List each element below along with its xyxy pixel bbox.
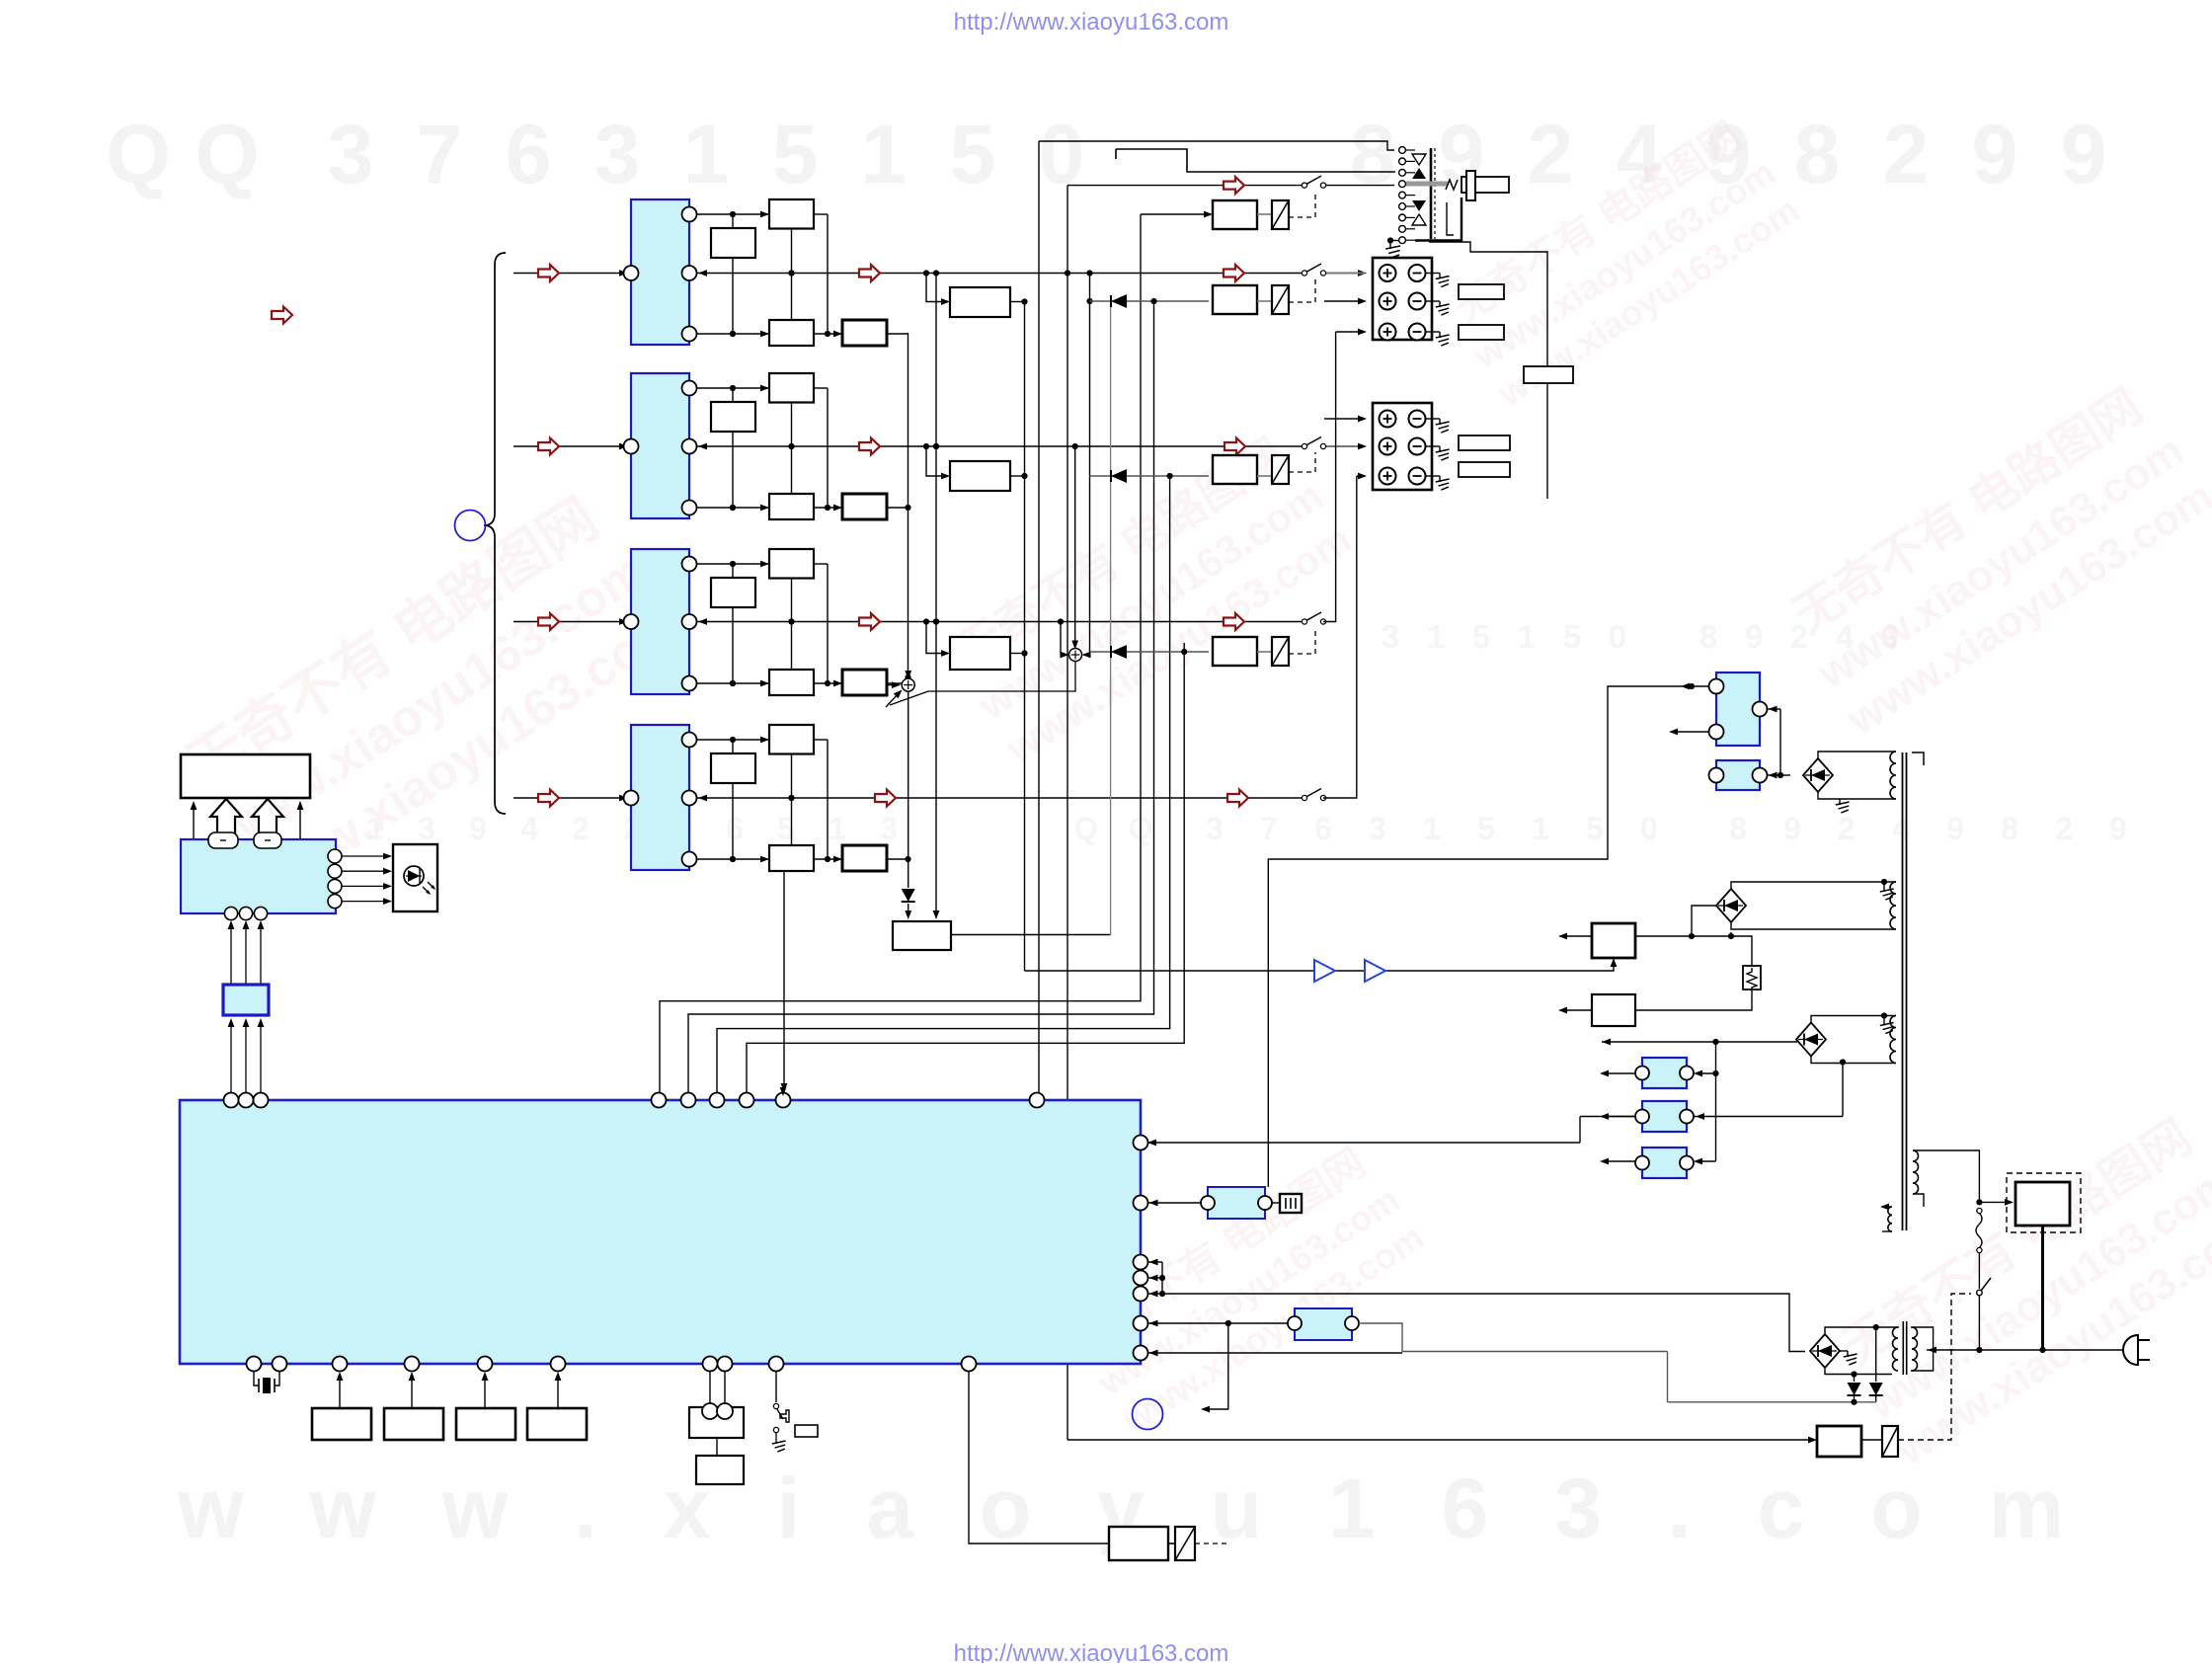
svg-text:2: 2 (1883, 108, 1930, 200)
svg-text:7: 7 (1260, 811, 1278, 846)
svg-text:2: 2 (572, 811, 590, 846)
svg-text:3: 3 (880, 811, 898, 846)
svg-text:1: 1 (1427, 618, 1445, 655)
svg-text:9: 9 (1783, 811, 1801, 846)
svg-text:6: 6 (506, 108, 552, 200)
svg-text:2: 2 (2055, 811, 2073, 846)
svg-text:8: 8 (1794, 108, 1841, 200)
svg-text:5: 5 (950, 108, 996, 200)
svg-text:Q: Q (195, 108, 259, 200)
svg-text:9: 9 (1745, 618, 1763, 655)
svg-text:Q: Q (106, 108, 170, 200)
svg-text:2: 2 (1528, 108, 1574, 200)
svg-text:5: 5 (1586, 811, 1604, 846)
svg-text:1: 1 (861, 108, 908, 200)
svg-text:1: 1 (683, 108, 730, 200)
svg-text:9: 9 (1972, 108, 2018, 200)
svg-text:5: 5 (1563, 618, 1581, 655)
svg-text:3: 3 (328, 108, 374, 200)
svg-text:8: 8 (1350, 108, 1396, 200)
svg-text:8: 8 (1699, 618, 1717, 655)
svg-text:1: 1 (1518, 618, 1536, 655)
svg-text:5: 5 (777, 811, 795, 846)
svg-text:3: 3 (1206, 811, 1224, 846)
svg-text:1: 1 (829, 811, 846, 846)
svg-text:9: 9 (1946, 811, 1964, 846)
svg-text:9: 9 (2109, 811, 2127, 846)
svg-text:5: 5 (1472, 618, 1490, 655)
svg-text:7: 7 (417, 108, 463, 200)
svg-text:1: 1 (1532, 811, 1549, 846)
svg-text:http://www.xiaoyu163.com: http://www.xiaoyu163.com (954, 9, 1229, 36)
svg-text:6: 6 (726, 811, 744, 846)
svg-text:0: 0 (1609, 618, 1626, 655)
svg-text:5: 5 (772, 108, 819, 200)
svg-text:2: 2 (1838, 811, 1856, 846)
svg-text:5: 5 (1477, 811, 1495, 846)
svg-text:6: 6 (1314, 811, 1332, 846)
svg-text:8: 8 (2001, 811, 2018, 846)
svg-text:8: 8 (1729, 811, 1747, 846)
svg-text:1: 1 (1423, 811, 1441, 846)
svg-text:Q: Q (1074, 811, 1099, 846)
svg-text:9: 9 (469, 811, 487, 846)
svg-text:0: 0 (1039, 108, 1085, 200)
svg-text:9: 9 (2061, 108, 2107, 200)
svg-text:4: 4 (520, 811, 538, 846)
svg-text:3: 3 (1382, 618, 1399, 655)
svg-text:3: 3 (594, 108, 641, 200)
svg-text:0: 0 (1640, 811, 1658, 846)
svg-text:http://www.xiaoyu163.com: http://www.xiaoyu163.com (954, 1640, 1229, 1663)
svg-text:4: 4 (1892, 811, 1910, 846)
svg-text:3: 3 (1369, 811, 1386, 846)
